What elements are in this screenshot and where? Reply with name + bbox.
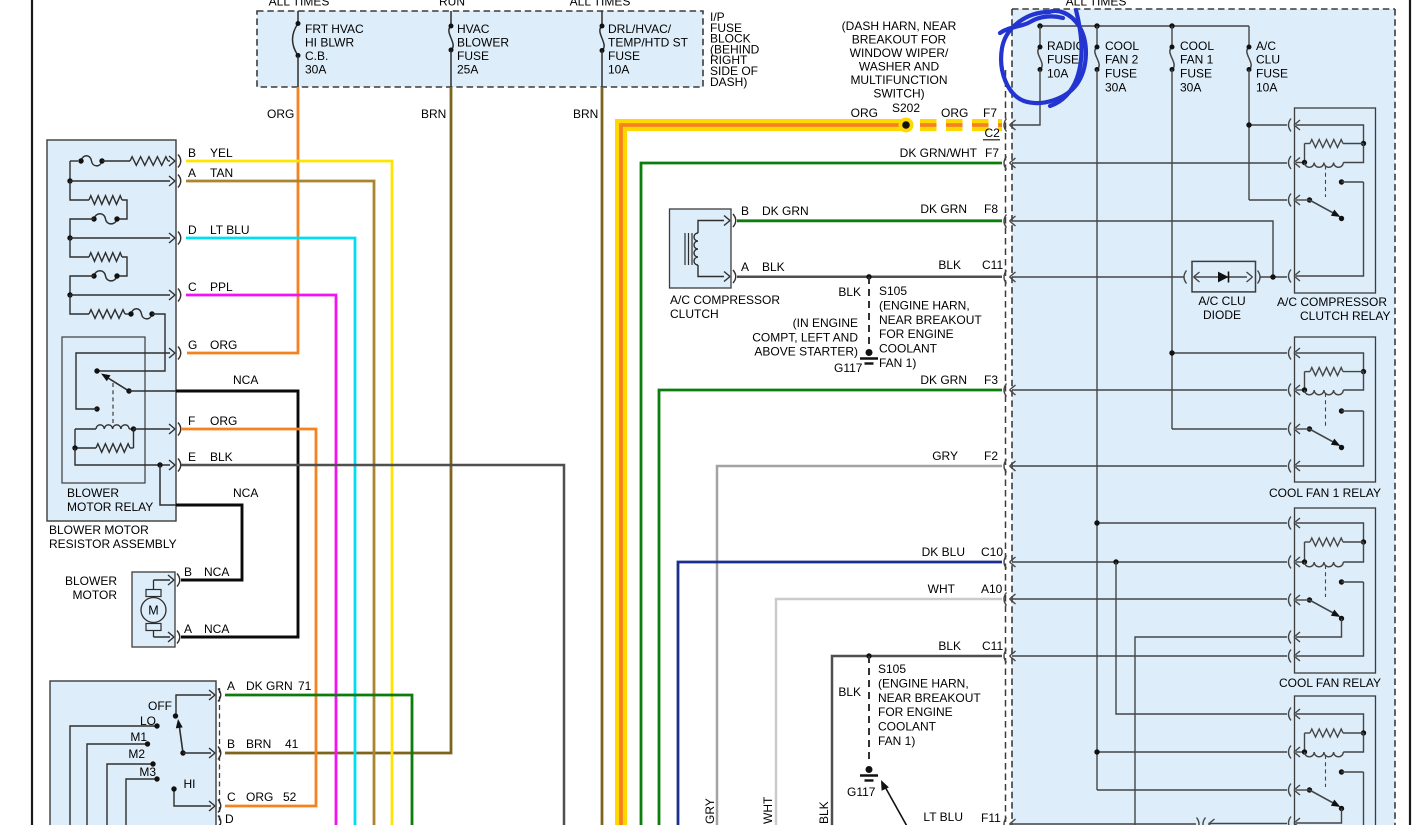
ground G117 (upper) bbox=[866, 349, 873, 356]
svg-text:A10: A10 bbox=[981, 582, 1003, 596]
svg-text:COOLANT: COOLANT bbox=[878, 720, 937, 734]
left edge connectors of underhood box bbox=[1004, 119, 1007, 132]
svg-text:A: A bbox=[184, 622, 192, 636]
svg-text:BRN: BRN bbox=[573, 107, 598, 121]
svg-text:WHT: WHT bbox=[761, 796, 775, 824]
svg-text:ORG: ORG bbox=[210, 414, 237, 428]
pin B of blower motor bbox=[154, 579, 171, 581]
relay U3 COOL FAN RELAY bbox=[1295, 508, 1376, 673]
wire LT BLU F11 connector to relay U4 pin 4 bbox=[1012, 823, 1196, 825]
wire DK GRN/WHT connector to relay U1 coil bbox=[1012, 162, 1287, 164]
bus wire joining four fuses bbox=[1040, 25, 1249, 27]
svg-text:TEMP/HTD ST: TEMP/HTD ST bbox=[608, 36, 689, 50]
svg-text:COMPT, LEFT AND: COMPT, LEFT AND bbox=[752, 331, 858, 345]
wire BLK pin E off-page bbox=[181, 465, 564, 825]
switch contact M3 bbox=[126, 779, 157, 825]
svg-text:F8: F8 bbox=[984, 202, 998, 216]
relay U1 A/C COMPRESSOR CLUTCH RELAY bbox=[1295, 108, 1376, 293]
svg-text:NEAR BREAKOUT: NEAR BREAKOUT bbox=[878, 691, 981, 705]
svg-text:FAN 2: FAN 2 bbox=[1105, 53, 1139, 67]
wire coil to pin F bbox=[134, 428, 171, 430]
svg-text:BLK: BLK bbox=[817, 801, 831, 824]
svg-text:CLU: CLU bbox=[1256, 53, 1280, 67]
relay U4 (bottom, cut off) bbox=[1295, 696, 1376, 825]
svg-text:(DASH HARN, NEAR: (DASH HARN, NEAR bbox=[842, 19, 957, 33]
svg-text:F3: F3 bbox=[984, 373, 998, 387]
svg-text:DK GRN: DK GRN bbox=[246, 679, 293, 693]
svg-text:B: B bbox=[184, 565, 192, 579]
fuse A/C CLU FUSE 10A bbox=[1248, 26, 1250, 47]
svg-text:C2: C2 bbox=[985, 126, 1001, 140]
wire BRN from fuse F3 down off-page bbox=[601, 87, 604, 825]
wire DK BLU C10 bbox=[678, 562, 1002, 825]
pins of resistor assembly bbox=[169, 156, 175, 161]
svg-text:DASH): DASH) bbox=[710, 75, 747, 89]
wire DK GRN F3 bbox=[659, 390, 1002, 825]
wire NCA from relay common bbox=[129, 390, 176, 392]
svg-text:COOL: COOL bbox=[1105, 39, 1139, 53]
svg-text:G117: G117 bbox=[847, 785, 876, 799]
svg-text:MOTOR: MOTOR bbox=[73, 588, 118, 602]
connector dashed line (left of underhood box) bbox=[1005, 70, 1007, 825]
svg-text:DIODE: DIODE bbox=[1203, 308, 1241, 322]
svg-text:COOLANT: COOLANT bbox=[879, 342, 938, 356]
fuse COOL FAN 1 FUSE 30A bbox=[1171, 26, 1173, 47]
svg-text:FAN 1): FAN 1) bbox=[878, 734, 915, 748]
svg-text:BLK: BLK bbox=[938, 639, 961, 653]
svg-text:DK GRN: DK GRN bbox=[762, 204, 809, 218]
svg-text:ORG: ORG bbox=[851, 106, 878, 120]
svg-text:NCA: NCA bbox=[233, 486, 258, 500]
svg-text:M1: M1 bbox=[130, 730, 147, 744]
splice S202 bbox=[899, 118, 914, 133]
svg-text:FUSE: FUSE bbox=[1180, 67, 1212, 81]
wire LT BLU pin D off-page bbox=[186, 238, 355, 825]
wire GRY F2 bbox=[717, 466, 1002, 825]
svg-text:A/C: A/C bbox=[1256, 39, 1276, 53]
svg-text:D: D bbox=[188, 223, 197, 237]
svg-text:LT BLU: LT BLU bbox=[923, 810, 963, 824]
svg-text:B: B bbox=[741, 204, 749, 218]
svg-text:10A: 10A bbox=[1256, 81, 1277, 95]
wire COOL FAN 2 fuse to relay U4 pins 2 and 3 bbox=[1097, 751, 1287, 753]
svg-text:S105: S105 bbox=[878, 662, 906, 676]
svg-text:ORG: ORG bbox=[941, 106, 968, 120]
wire ORG pin F to switch pin C bbox=[181, 429, 316, 806]
A/C compressor clutch box bbox=[670, 209, 732, 288]
svg-text:G117: G117 bbox=[834, 361, 863, 375]
svg-text:E: E bbox=[188, 450, 196, 464]
svg-text:BLK: BLK bbox=[938, 258, 961, 272]
svg-text:BLK: BLK bbox=[838, 285, 861, 299]
wire NCA2 from pin E row to blower motor pin B bbox=[160, 465, 176, 505]
pin A of blower motor bbox=[154, 636, 171, 638]
svg-text:30A: 30A bbox=[1105, 81, 1126, 95]
wire TAN pin A off-page bbox=[186, 181, 374, 825]
svg-text:30A: 30A bbox=[1180, 81, 1201, 95]
svg-text:NCA: NCA bbox=[233, 373, 258, 387]
svg-text:M: M bbox=[148, 604, 158, 618]
svg-text:A/C CLU: A/C CLU bbox=[1198, 294, 1245, 308]
wire relay U3 pin 4 down off-page bbox=[1135, 637, 1287, 825]
wire DK GRN/WHT to connector F7 bbox=[641, 163, 1002, 825]
svg-text:GRY: GRY bbox=[703, 798, 717, 824]
fuse F3 DRL/HVAC/TEMP/HTD ST FUSE 10A bbox=[601, 11, 603, 26]
svg-text:FAN 1): FAN 1) bbox=[879, 356, 916, 370]
svg-text:COOL FAN 1 RELAY: COOL FAN 1 RELAY bbox=[1269, 486, 1381, 500]
svg-text:BLK: BLK bbox=[210, 450, 233, 464]
svg-text:D: D bbox=[225, 812, 234, 825]
svg-text:COOL FAN RELAY: COOL FAN RELAY bbox=[1279, 676, 1381, 690]
svg-text:WHT: WHT bbox=[928, 582, 956, 596]
svg-text:FUSE: FUSE bbox=[608, 49, 640, 63]
svg-text:FAN 1: FAN 1 bbox=[1180, 53, 1214, 67]
wire WHT A10 bbox=[776, 599, 1002, 825]
svg-text:HI BLWR: HI BLWR bbox=[305, 36, 354, 50]
svg-text:A/C COMPRESSOR: A/C COMPRESSOR bbox=[670, 293, 780, 307]
svg-text:LO: LO bbox=[140, 714, 156, 728]
svg-text:A: A bbox=[227, 679, 235, 693]
svg-text:COOL: COOL bbox=[1180, 39, 1214, 53]
switch contact OFF bbox=[176, 695, 211, 716]
svg-text:HI: HI bbox=[184, 777, 196, 791]
right page border line bbox=[1409, 0, 1411, 825]
svg-text:71: 71 bbox=[298, 679, 312, 693]
wire GRY F2 connector to relay U2 pin 4 bbox=[1012, 465, 1287, 467]
switch contact M1 bbox=[87, 744, 148, 825]
svg-text:FUSE: FUSE bbox=[457, 49, 489, 63]
svg-text:DRL/HVAC/: DRL/HVAC/ bbox=[608, 22, 672, 36]
wire DK BLU C10 connector to relay U3 coil and relay U4 pin 1 bbox=[1012, 561, 1287, 563]
svg-text:NCA: NCA bbox=[204, 622, 229, 636]
svg-text:A: A bbox=[741, 260, 749, 274]
svg-text:52: 52 bbox=[283, 790, 297, 804]
svg-text:F: F bbox=[188, 414, 195, 428]
svg-text:F11: F11 bbox=[981, 811, 1001, 825]
svg-text:C10: C10 bbox=[981, 545, 1003, 559]
switch connector dashed line bbox=[219, 688, 221, 825]
svg-text:BLOWER: BLOWER bbox=[457, 36, 509, 50]
switch contact LO bbox=[70, 726, 157, 825]
row C wire bbox=[67, 292, 72, 297]
blower motor relay switch bbox=[94, 368, 99, 373]
svg-text:F7: F7 bbox=[985, 146, 999, 160]
wire WHT A10 connector to relay U3 common bbox=[1012, 598, 1287, 600]
svg-text:MULTIFUNCTION: MULTIFUNCTION bbox=[850, 73, 947, 87]
A/C compressor clutch coil bbox=[684, 233, 686, 265]
svg-text:G: G bbox=[188, 338, 197, 352]
svg-text:FUSE: FUSE bbox=[1047, 53, 1079, 67]
blower switch assembly box bbox=[50, 681, 216, 825]
svg-text:ORG: ORG bbox=[267, 107, 294, 121]
switch arm bbox=[179, 724, 183, 753]
svg-text:OFF: OFF bbox=[148, 699, 172, 713]
svg-text:ALL TIMES: ALL TIMES bbox=[570, 0, 631, 9]
svg-text:CLUTCH: CLUTCH bbox=[670, 307, 719, 321]
svg-text:BLOWER: BLOWER bbox=[67, 486, 119, 500]
svg-text:CLUTCH RELAY: CLUTCH RELAY bbox=[1300, 309, 1390, 323]
svg-text:(IN ENGINE: (IN ENGINE bbox=[793, 316, 858, 330]
wire diode to relay U1 pin 4 bbox=[1260, 276, 1287, 278]
svg-text:WINDOW WIPER/: WINDOW WIPER/ bbox=[850, 46, 949, 60]
wire ORG (yellow highlighted) vertical and to S202 bbox=[621, 125, 909, 825]
svg-text:FUSE: FUSE bbox=[1105, 67, 1137, 81]
svg-text:S202: S202 bbox=[892, 101, 920, 115]
svg-text:FOR ENGINE: FOR ENGINE bbox=[878, 705, 953, 719]
svg-text:ORG: ORG bbox=[210, 338, 237, 352]
wire YEL pin B off-page bbox=[186, 161, 392, 825]
blower motor box bbox=[132, 572, 175, 647]
svg-text:B: B bbox=[227, 737, 235, 751]
wire ORG dashed segment S202 to connector F7 bbox=[920, 119, 1002, 131]
svg-text:LT BLU: LT BLU bbox=[210, 223, 250, 237]
svg-text:M2: M2 bbox=[128, 747, 145, 761]
svg-text:HVAC: HVAC bbox=[457, 22, 490, 36]
svg-text:PPL: PPL bbox=[210, 280, 233, 294]
svg-text:WASHER AND: WASHER AND bbox=[859, 60, 940, 74]
I/P fuse block dashed box bbox=[257, 11, 703, 87]
svg-text:M3: M3 bbox=[139, 765, 156, 779]
svg-text:F2: F2 bbox=[984, 449, 998, 463]
svg-text:RUN: RUN bbox=[439, 0, 465, 9]
wire pin G to relay contact bbox=[76, 353, 170, 409]
svg-text:ORG: ORG bbox=[246, 790, 273, 804]
blower motor relay inner box bbox=[62, 337, 145, 483]
svg-text:TAN: TAN bbox=[210, 166, 233, 180]
svg-text:RESISTOR ASSEMBLY: RESISTOR ASSEMBLY bbox=[49, 537, 177, 551]
wire connector F8 to diode/relay node bbox=[1012, 221, 1273, 277]
svg-text:DK GRN/WHT: DK GRN/WHT bbox=[900, 146, 978, 160]
svg-text:30A: 30A bbox=[305, 63, 326, 77]
svg-text:ALL TIMES: ALL TIMES bbox=[269, 0, 330, 9]
wire DK GRN 71 off-page bbox=[225, 695, 412, 825]
svg-text:C.B.: C.B. bbox=[305, 49, 328, 63]
pins of switch assembly bbox=[209, 690, 215, 695]
resistor ladder row B with thermal limiter bbox=[70, 160, 78, 162]
svg-text:A: A bbox=[188, 166, 196, 180]
svg-text:DK BLU: DK BLU bbox=[922, 545, 965, 559]
ground G117 (lower) bbox=[866, 766, 873, 773]
svg-text:MOTOR RELAY: MOTOR RELAY bbox=[67, 500, 153, 514]
fuse RADIO FUSE 10A bbox=[1039, 26, 1041, 47]
fuse F2 HVAC BLOWER FUSE 25A bbox=[450, 11, 452, 26]
circuit breaker F1 FRT HVAC HI BLWR C.B. 30A bbox=[297, 11, 299, 24]
svg-text:BLK: BLK bbox=[762, 260, 785, 274]
svg-text:NEAR BREAKOUT: NEAR BREAKOUT bbox=[879, 313, 982, 327]
wire DK GRN pin B to connector F8 bbox=[737, 219, 1002, 222]
svg-text:C11: C11 bbox=[982, 639, 1003, 653]
svg-text:(ENGINE HARN,: (ENGINE HARN, bbox=[878, 676, 969, 690]
svg-text:ALL TIMES: ALL TIMES bbox=[1066, 0, 1127, 9]
wire ORG from C.B. F1 to resistor pin G bbox=[187, 87, 298, 353]
svg-text:NCA: NCA bbox=[204, 565, 229, 579]
svg-text:C11: C11 bbox=[982, 258, 1003, 272]
wire rail row B to row A bbox=[69, 161, 71, 181]
fuse COOL FAN 2 FUSE 30A bbox=[1096, 26, 1098, 47]
svg-text:SWITCH): SWITCH) bbox=[873, 87, 924, 101]
wire BLK C11 lower splice and dashed drop bbox=[866, 653, 871, 658]
svg-text:10A: 10A bbox=[608, 63, 629, 77]
left page border line bbox=[31, 0, 33, 825]
dashed BLK wire to ground G117 (upper) bbox=[868, 277, 870, 347]
svg-text:A/C COMPRESSOR: A/C COMPRESSOR bbox=[1277, 295, 1387, 309]
resistor chain A to D bbox=[70, 181, 89, 200]
svg-text:YEL: YEL bbox=[210, 146, 233, 160]
wire PPL pin C off-page bbox=[186, 295, 336, 825]
blower motor relay coil bbox=[75, 428, 96, 430]
wire COOL FAN 1 fuse to relay U2 pins 1 and 3 bbox=[1172, 352, 1287, 354]
wire BLK C11 (to cool fan relay) bbox=[832, 656, 1002, 825]
resistor chain D to C bbox=[70, 238, 89, 257]
blower motor M symbol bbox=[141, 598, 166, 623]
blower motor resistor assembly box bbox=[47, 140, 176, 521]
pin B of A/C compressor clutch bbox=[724, 216, 730, 221]
switch contact HI bbox=[174, 789, 211, 806]
row A wire bbox=[67, 178, 72, 183]
wire BLK C11 connector to diode bbox=[1012, 276, 1184, 278]
wire DK GRN F3 connector to relay U2 coil bbox=[1012, 389, 1287, 391]
svg-text:GRY: GRY bbox=[932, 449, 958, 463]
svg-text:25A: 25A bbox=[457, 63, 478, 77]
svg-text:BRN: BRN bbox=[246, 737, 271, 751]
wire BRN from fuse F2 down to switch pin B bbox=[225, 87, 451, 753]
svg-text:C: C bbox=[188, 280, 197, 294]
hand-drawn blue circle around RADIO FUSE bbox=[1001, 11, 1086, 103]
diode D1 A/C CLU DIODE bbox=[1192, 261, 1256, 292]
svg-text:(ENGINE HARN,: (ENGINE HARN, bbox=[879, 298, 970, 312]
svg-text:10A: 10A bbox=[1047, 67, 1068, 81]
svg-text:DK GRN: DK GRN bbox=[920, 373, 967, 387]
svg-text:FOR ENGINE: FOR ENGINE bbox=[879, 327, 954, 341]
svg-text:S105: S105 bbox=[879, 284, 907, 298]
wire BLK C11 connector to relay U3 pin 5 bbox=[1012, 655, 1287, 657]
svg-text:BLOWER MOTOR: BLOWER MOTOR bbox=[49, 523, 149, 537]
svg-text:BLOWER: BLOWER bbox=[65, 574, 117, 588]
svg-text:F7: F7 bbox=[983, 106, 997, 120]
svg-text:ABOVE STARTER): ABOVE STARTER) bbox=[754, 345, 858, 359]
wire A/C CLU fuse to relay U1 pins 1 and 3 bbox=[1249, 124, 1287, 126]
underhood fuse block dashed box bbox=[1012, 9, 1395, 825]
svg-text:B: B bbox=[188, 146, 196, 160]
annotation arrow pointing to ground G117 bbox=[884, 785, 908, 825]
svg-text:C: C bbox=[227, 790, 236, 804]
svg-text:BREAKOUT FOR: BREAKOUT FOR bbox=[852, 33, 947, 47]
svg-text:BRN: BRN bbox=[421, 107, 446, 121]
wire COOL FAN 2 fuse to relay U3 pin 1 bbox=[1097, 522, 1287, 524]
wire BLK pin A to connector C11 bbox=[737, 276, 1002, 279]
resistor chain C to relay contact bbox=[70, 295, 89, 314]
row D wire bbox=[67, 235, 72, 240]
svg-text:41: 41 bbox=[285, 737, 299, 751]
wire coil to pin E row bbox=[75, 448, 170, 465]
svg-text:BLK: BLK bbox=[838, 685, 861, 699]
relay U2 COOL FAN 1 RELAY bbox=[1295, 337, 1376, 482]
svg-text:FRT HVAC: FRT HVAC bbox=[305, 22, 364, 36]
svg-text:DK GRN: DK GRN bbox=[920, 202, 967, 216]
svg-text:FUSE: FUSE bbox=[1256, 67, 1288, 81]
switch contact M2 bbox=[107, 764, 153, 825]
pin A of A/C compressor clutch bbox=[724, 272, 730, 277]
